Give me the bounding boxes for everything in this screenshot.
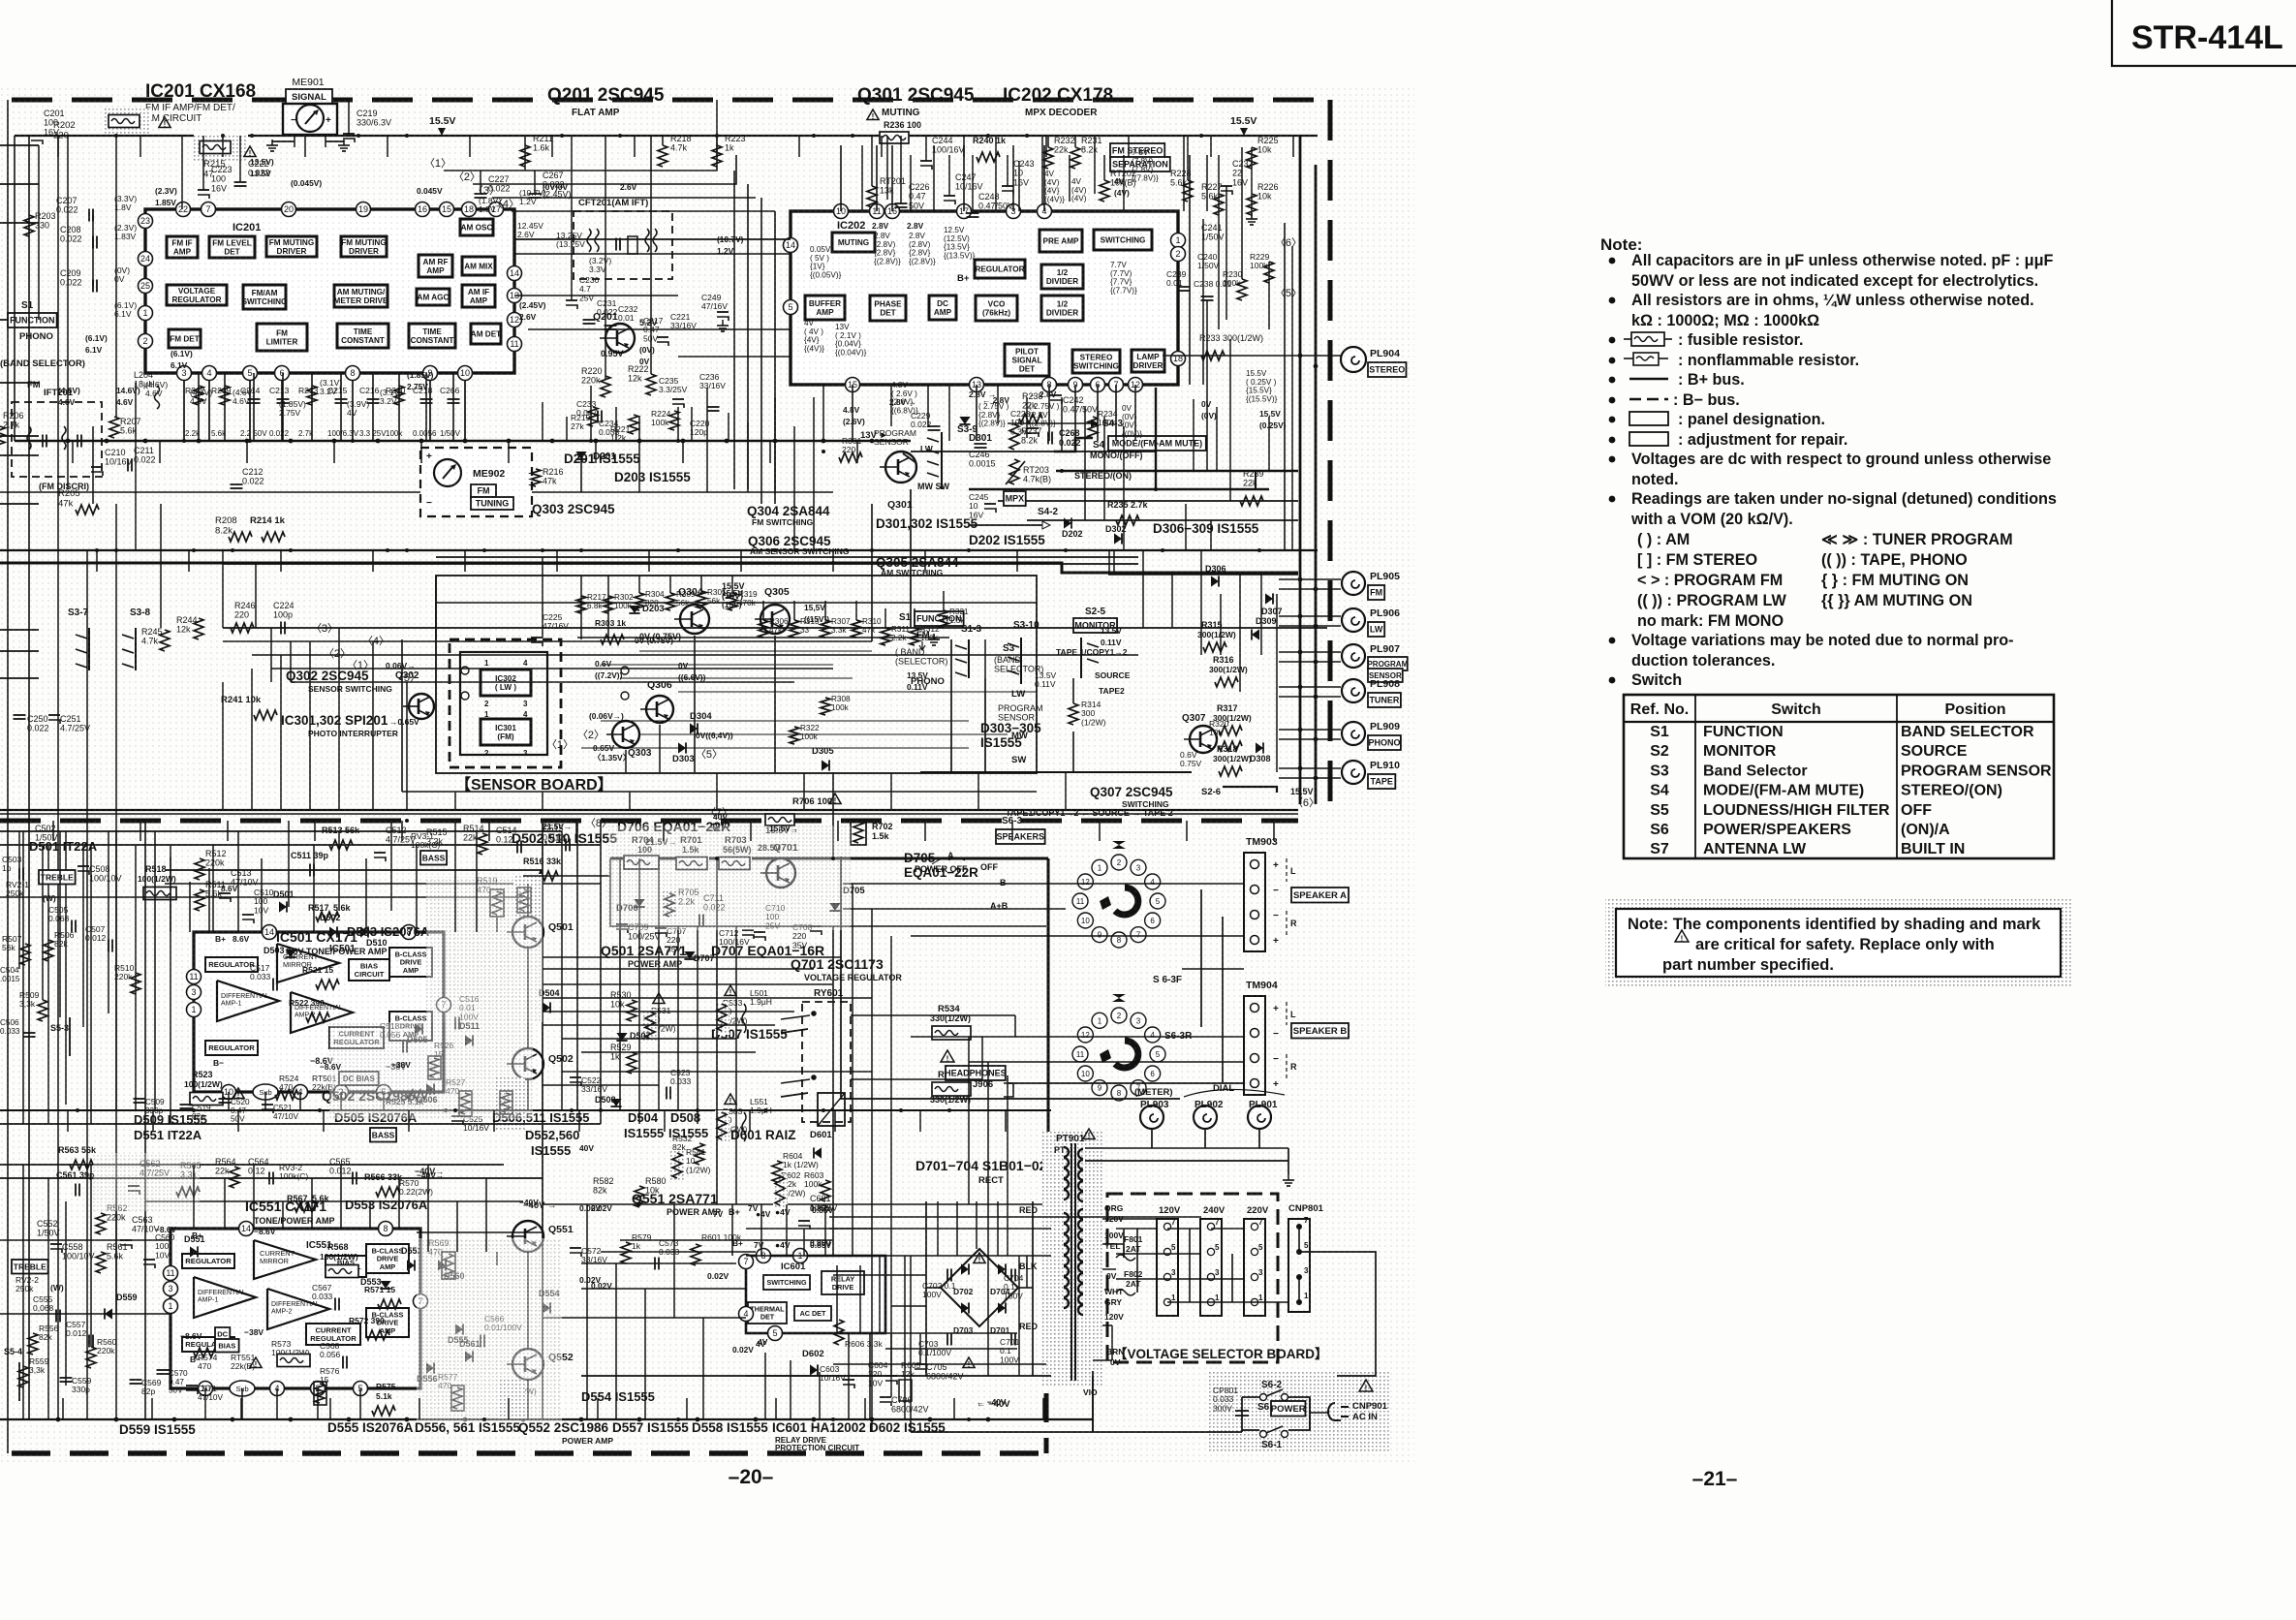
block LAMP DRIVER — [1132, 350, 1164, 372]
wire rail y455 — [15, 440, 911, 442]
wire sensor area verticals — [435, 576, 437, 639]
op-amp IC551 block — [171, 1229, 420, 1388]
wire q501 collector lines — [527, 884, 529, 917]
block DC AMP — [929, 296, 956, 320]
safety note box — [1605, 899, 2071, 986]
op-amp IC601 block — [746, 1256, 885, 1333]
svg-text:{{ }} AM MUTING ON: {{ }} AM MUTING ON — [1821, 592, 1972, 609]
svg-text:{ } : FM MUTING ON: { } : FM MUTING ON — [1821, 572, 1969, 589]
transistor Q501 — [512, 917, 543, 948]
wire rail 1465 — [0, 1418, 1093, 1420]
svg-text:Ref. No.: Ref. No. — [1630, 701, 1689, 718]
block FM MUTING DRIVER 1 — [266, 236, 317, 257]
block SWITCHING 202 — [1094, 230, 1152, 250]
diode D307 — [1265, 593, 1273, 604]
resistor R215 fusible — [194, 134, 248, 163]
wire ic202 bottom verticals — [822, 385, 824, 441]
svg-text:Switch: Switch — [1771, 701, 1821, 718]
diode D202 — [1064, 517, 1071, 528]
wire rail 1243 — [543, 1203, 1051, 1205]
resistor R207 — [109, 417, 119, 438]
block VCO — [976, 296, 1017, 321]
label MPX — [1004, 491, 1026, 506]
capacitor C702cap — [946, 1269, 948, 1282]
diode D552 — [407, 1260, 415, 1270]
meter ME902 — [420, 448, 532, 516]
svg-text:: adjustment for repair.: : adjustment for repair. — [1678, 431, 1847, 449]
resistor R202 fusible — [105, 109, 151, 134]
wire amp mid forest2 — [454, 821, 456, 932]
diode D507d — [616, 1033, 627, 1041]
connector CNP801 — [1288, 1219, 1310, 1312]
block FM IF AMP — [167, 236, 198, 258]
svg-text:[ ] : FM STEREO: [ ] : FM STEREO — [1637, 551, 1757, 569]
wire bottom dashed border — [12, 1450, 1051, 1456]
svg-text:All resistors are in ohms, ¼W: All resistors are in ohms, ¼W unless oth… — [1631, 292, 2034, 309]
wire lamp bus — [1085, 1147, 1288, 1149]
junction dot sprinkle — [221, 134, 225, 138]
wire extra stubs final — [57, 136, 59, 157]
diode D306m — [1211, 576, 1219, 586]
wire vio line — [1092, 1371, 1094, 1432]
wire amp mid horizontals — [165, 869, 543, 871]
wire IC202 pin risers — [840, 145, 842, 211]
junction dots rail455 — [66, 439, 71, 444]
svg-text:Voltage variations may be note: Voltage variations may be noted due to n… — [1631, 632, 2014, 649]
wire power loop — [1299, 1252, 1376, 1376]
diode D707d — [684, 951, 695, 959]
svg-text:S5: S5 — [1650, 802, 1669, 819]
block VOLTAGE REGULATOR — [167, 285, 227, 305]
diode D560 — [438, 1260, 446, 1270]
diode D511 — [465, 1035, 473, 1045]
svg-text:S1: S1 — [1650, 724, 1669, 740]
wire treble rails — [0, 1164, 504, 1166]
svg-text:BUILT IN: BUILT IN — [1901, 841, 1965, 857]
block FM MUTING DRIVER 2 — [341, 236, 387, 257]
wire rail 1146 — [0, 1109, 1051, 1111]
connector voltage selector — [1107, 1194, 1278, 1362]
resistor R584b — [941, 1050, 954, 1062]
diode D302 — [1114, 533, 1122, 544]
diode D510 — [360, 926, 368, 937]
wire tuner lower verticals — [950, 639, 952, 772]
diode D556 — [426, 1362, 434, 1373]
wire top band verticals — [348, 100, 350, 136]
wire power area wires — [746, 1255, 1051, 1257]
diode D705d — [829, 903, 840, 911]
wire heavy 40V bus — [610, 857, 1048, 860]
svg-text:no mark: FM MONO: no mark: FM MONO — [1637, 612, 1784, 630]
label bowtie a — [1112, 841, 1126, 849]
wire tuner mid horizontals — [514, 238, 791, 240]
svg-text:S3: S3 — [1650, 763, 1669, 779]
block AM IF AMP — [462, 285, 495, 307]
diode D201 — [575, 452, 586, 459]
block PHASE DET — [870, 296, 906, 321]
wire left edge stubs — [0, 144, 39, 146]
wire rail 1160 — [0, 1123, 601, 1125]
svg-text:STR-414L: STR-414L — [2131, 19, 2283, 56]
diode D506 — [426, 1083, 434, 1094]
wire IC202 pin drops — [852, 385, 853, 441]
transistor Q552 — [512, 1349, 543, 1380]
wire amp verticals — [144, 821, 146, 1419]
lamp PL902 — [1194, 1106, 1217, 1129]
wire ic551 pin drops — [204, 1388, 206, 1419]
svg-text:S6: S6 — [1650, 822, 1669, 838]
halftone patch q551l — [93, 1153, 200, 1211]
label TREBLE up — [39, 870, 76, 885]
transistor Q301 — [885, 452, 916, 483]
wire q30x emitter wires — [694, 636, 696, 772]
svg-text:Position: Position — [1944, 701, 2005, 718]
notes bullet list — [1609, 258, 1616, 265]
block FM DET — [169, 329, 201, 348]
svg-text:FUNCTION: FUNCTION — [1703, 724, 1784, 740]
svg-text:SOURCE: SOURCE — [1901, 743, 1968, 760]
diode D305 — [822, 760, 829, 770]
resistor R245 — [160, 630, 170, 651]
svg-text:( ) : AM: ( ) : AM — [1637, 531, 1690, 548]
lamp PL901 — [1248, 1106, 1271, 1129]
svg-text:!: ! — [1681, 935, 1684, 944]
wire stub forest right mid — [1193, 399, 1195, 471]
diode D308 — [1256, 742, 1263, 753]
op-amp IC501 block — [194, 932, 444, 1092]
wire program bus 4 — [271, 668, 833, 670]
op-amp IC201 block outline — [145, 209, 514, 373]
halftone patch lower out — [417, 1238, 562, 1422]
label TREBLE — [12, 1260, 48, 1274]
svg-text:part number specified.: part number specified. — [1662, 956, 1834, 974]
transistor Q305 — [760, 605, 790, 634]
wire amp bottom forest — [586, 1204, 588, 1419]
diode D555 — [455, 1324, 463, 1334]
terminal TM904 — [1244, 996, 1265, 1095]
wire chevron lines — [444, 145, 717, 171]
wire relay drive wires — [851, 1014, 1015, 1016]
wire bass rails — [0, 830, 562, 832]
transistor Q304 — [680, 605, 709, 634]
plug CNP901 — [1328, 1403, 1349, 1420]
svg-text:(ON)/A: (ON)/A — [1901, 822, 1950, 838]
block 1/2 DIVIDER b — [1041, 296, 1083, 321]
wire ic501 top forest — [208, 868, 210, 932]
svg-text:PROGRAM SENSOR: PROGRAM SENSOR — [1901, 763, 2052, 779]
svg-text:POWER/SPEAKERS: POWER/SPEAKERS — [1703, 822, 1851, 838]
halftone patch upper out2 — [329, 1022, 533, 1119]
transistor Q307 — [1190, 726, 1217, 753]
wire tuner-amp join verticals — [222, 682, 224, 810]
wire rail y582 — [223, 563, 1138, 565]
power area halftone — [1209, 1370, 1389, 1453]
block AM MIX — [462, 257, 495, 275]
wire right dashed border — [1328, 100, 1333, 817]
block AM DET — [471, 324, 501, 344]
transistor Q701 — [766, 858, 795, 888]
wire right bus heavy — [1299, 136, 1302, 804]
diode D553d — [380, 1281, 390, 1289]
svg-text:MODE/(FM-AM MUTE): MODE/(FM-AM MUTE) — [1703, 783, 1864, 799]
wire mid divider solid — [0, 809, 1298, 811]
wire selector wiring — [1116, 1228, 1157, 1230]
wire lower right dashed border — [1044, 1170, 1049, 1453]
lamp PL904 — [1163, 355, 1341, 357]
diode D706d — [634, 899, 644, 907]
wire ic551 top forest — [193, 1165, 195, 1229]
diode D502b — [329, 926, 337, 937]
wire board-divider verticals — [454, 792, 456, 810]
label FM STEREO SEPARATION — [1110, 143, 1164, 158]
wire stub forest tr — [1183, 136, 1185, 211]
resistor R244 — [194, 618, 203, 639]
svg-text:are critical for safety. Rep: are critical for safety. Replace only wi… — [1695, 936, 1995, 953]
svg-text:–20–: –20– — [729, 1466, 774, 1488]
op-amp IC202 block outline — [791, 211, 1178, 385]
svg-text:S7: S7 — [1650, 841, 1669, 857]
svg-text:: B− bus.: : B− bus. — [1673, 391, 1740, 409]
diode D554 — [543, 1302, 550, 1313]
wire rail y568 — [0, 549, 1318, 551]
wire sensor right rails — [436, 556, 1138, 558]
svg-text:≪ ≫ : TUNER PROGRAM: ≪ ≫ : TUNER PROGRAM — [1821, 531, 2013, 548]
diode D309 — [1252, 629, 1259, 639]
resistor R314 — [1069, 703, 1078, 725]
label SPEAKER A — [1291, 888, 1349, 903]
wire sensor board outline — [436, 576, 1037, 773]
svg-text:kΩ : 1000Ω; MΩ : 1000kΩ: kΩ : 1000Ω; MΩ : 1000kΩ — [1631, 312, 1819, 329]
switch S6-3R rotary — [1092, 1012, 1107, 1028]
terminal TM903 — [1244, 853, 1265, 951]
svg-text:Readings are taken under no-si: Readings are taken under no-signal (detu… — [1631, 490, 2057, 508]
wire program bus 1 — [223, 627, 1327, 629]
wire long left verticals — [7, 100, 9, 1453]
resistor R203 — [24, 215, 34, 236]
wire amp mid verticals — [576, 821, 578, 1110]
block BUFFER AMP — [805, 296, 845, 320]
halftone patch upper out — [426, 877, 543, 1022]
diode D504 — [543, 1002, 550, 1012]
svg-text:50WV or less are not indicated: 50WV or less are not indicated except fo… — [1631, 272, 2038, 290]
lamp PL903 — [1140, 1106, 1164, 1129]
block TIME CONSTANT 1 — [337, 324, 388, 348]
block FM/AM SWITCHING — [243, 285, 286, 309]
svg-text:: panel designation.: : panel designation. — [1678, 411, 1825, 428]
junction dots rail 1465 — [56, 1417, 61, 1422]
transistor Q551d — [512, 1221, 543, 1252]
label HEADPHONES — [946, 1066, 1006, 1080]
wire program bus 3 — [252, 654, 1138, 656]
svg-text:ANTENNA LW: ANTENNA LW — [1703, 841, 1807, 857]
wire mid divider dashed — [0, 819, 1298, 824]
svg-text:Note: The components identifie: Note: The components identified by shadi… — [1628, 916, 2041, 933]
block PRE AMP — [1039, 230, 1082, 252]
wire tuner long verticals — [733, 171, 735, 489]
wire q501 out rails — [543, 956, 841, 958]
halftone patch d706 — [608, 826, 851, 930]
resistor R237 — [1009, 424, 1019, 450]
label bowtie b — [1112, 994, 1126, 1002]
switch table — [1624, 695, 2054, 858]
diode D303 — [678, 742, 686, 753]
wire sensor area horizontals — [436, 602, 1037, 604]
wire IC201 pin drops — [183, 381, 185, 441]
transistor Q201 — [605, 324, 635, 353]
block 1/2 DIVIDER a — [1041, 265, 1083, 289]
block FM LEVEL DET — [209, 236, 255, 258]
diode D203s — [629, 606, 639, 613]
wire tuner left verticals — [14, 136, 16, 441]
svg-text:OFF: OFF — [1901, 802, 1932, 819]
wire rect to pt — [1018, 1287, 1033, 1289]
block MUTING — [832, 233, 875, 252]
wire pt selector feeds — [1102, 1218, 1157, 1220]
resistor R206 — [0, 426, 5, 448]
transistor Q502 — [512, 1048, 543, 1079]
transformer PT901 — [1042, 1132, 1102, 1386]
svg-text:: fusible resistor.: : fusible resistor. — [1678, 331, 1804, 349]
thermistor RT203 — [1009, 459, 1019, 484]
svg-text:S2: S2 — [1650, 743, 1669, 760]
wire treble verticals up — [18, 831, 20, 969]
svg-text:: B+ bus.: : B+ bus. — [1678, 371, 1745, 389]
block AM MUTING METER DRIVE — [334, 285, 388, 307]
wire amp left verticals — [22, 1165, 24, 1419]
svg-text:MONITOR: MONITOR — [1703, 743, 1777, 760]
block TIME CONSTANT 2 — [409, 324, 455, 348]
diode D551 — [190, 1246, 198, 1257]
transistor Q303b — [612, 721, 639, 748]
svg-text:S4: S4 — [1650, 783, 1669, 799]
block AM OSC — [460, 219, 493, 235]
svg-text:Switch: Switch — [1631, 671, 1682, 689]
block FM LIMITER — [257, 324, 307, 351]
diode D561 — [465, 1351, 473, 1361]
wire ic202 right verticals — [1189, 155, 1191, 385]
wire program bus 5 — [291, 681, 794, 683]
switch S6-3F rotary — [1092, 859, 1107, 875]
svg-text:duction tolerances.: duction tolerances. — [1631, 652, 1775, 670]
panel designation STR-414L title box — [2112, 0, 2296, 66]
svg-text:STEREO/(ON): STEREO/(ON) — [1901, 783, 2002, 799]
svg-text:–21–: –21– — [1692, 1468, 1738, 1490]
wire tuner band verticals2 — [542, 402, 543, 441]
resistor R233 — [1201, 351, 1225, 360]
resistor forest sensor area — [576, 596, 586, 613]
svg-text:with a VOM (20 kΩ/V).: with a VOM (20 kΩ/V). — [1630, 511, 1793, 528]
svg-text:< > : PROGRAM FM: < > : PROGRAM FM — [1637, 572, 1783, 589]
transistor Q306 — [646, 696, 673, 723]
svg-text:Band Selector: Band Selector — [1703, 763, 1808, 779]
resistor R216 — [531, 469, 541, 486]
wire power verticals — [836, 1265, 838, 1333]
svg-text:: nonflammable resistor.: : nonflammable resistor. — [1678, 352, 1859, 369]
wire program bus 2 — [223, 640, 872, 642]
label BASS box — [420, 851, 447, 865]
wire spk box — [841, 857, 1180, 1099]
op-amp IC301 IC302 photo interrupter — [450, 639, 561, 767]
diode D505 — [415, 1023, 422, 1034]
wire top dashed border — [12, 98, 1330, 103]
diode D503b — [285, 950, 295, 957]
wire 15.5V top rail — [15, 135, 1318, 137]
wire ic501 pin drops — [228, 1092, 230, 1110]
block STEREO SWITCHING — [1072, 350, 1120, 373]
junction dots extra — [95, 548, 99, 552]
wire power horizontals — [829, 1216, 1201, 1218]
block AM AGC — [417, 289, 450, 305]
rectifier bridge D701-D704 — [941, 1249, 1018, 1326]
svg-text:All capacitors are in μF unles: All capacitors are in μF unless otherwis… — [1631, 252, 2053, 269]
svg-text:BAND SELECTOR: BAND SELECTOR — [1901, 724, 2034, 740]
svg-text:noted.: noted. — [1631, 471, 1679, 488]
wire rail y508 — [0, 491, 833, 493]
diode D304 — [690, 723, 698, 733]
transistor Q302 — [409, 694, 434, 719]
wire speaker area wires — [843, 883, 1244, 885]
block REGULATOR 202 — [975, 260, 1025, 278]
block PILOT SIGNAL DET — [1005, 344, 1049, 376]
diode D501c — [279, 901, 287, 912]
scan grain overlay — [0, 85, 1414, 1465]
wire heavy stepped bus — [0, 563, 1298, 573]
diode D508d — [610, 1099, 621, 1106]
wire regulator box — [610, 858, 1046, 926]
svg-text:(( )) : PROGRAM LW: (( )) : PROGRAM LW — [1637, 592, 1786, 609]
component band under IC201 — [198, 373, 200, 441]
block AM RF AMP — [419, 255, 452, 277]
label SPEAKER B — [1291, 1023, 1349, 1039]
svg-text:Voltages are dc with respect t: Voltages are dc with respect to ground u… — [1631, 451, 2051, 468]
svg-text:(( )) : TAPE, PHONO: (( )) : TAPE, PHONO — [1821, 551, 1968, 569]
lamps PL905-PL910 — [1279, 578, 1341, 580]
svg-text:LOUDNESS/HIGH FILTER: LOUDNESS/HIGH FILTER — [1703, 802, 1890, 819]
